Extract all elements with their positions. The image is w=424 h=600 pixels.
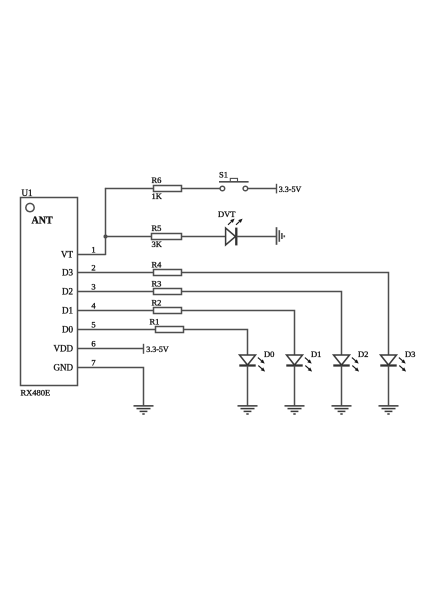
svg-text:S1: S1 [219, 170, 228, 180]
resistor R5 body [152, 234, 182, 240]
svg-text:D2: D2 [62, 287, 73, 297]
svg-text:4: 4 [91, 300, 96, 310]
svg-text:R1: R1 [150, 317, 160, 327]
resistor R2 body [154, 308, 182, 314]
wire pin2 to R4 [78, 272, 154, 274]
svg-text:R4: R4 [152, 260, 163, 270]
svg-text:VDD: VDD [54, 344, 74, 354]
LED D2 arrow 2 [352, 366, 356, 369]
svg-text:ANT: ANT [32, 216, 53, 227]
resistor R4 body [154, 270, 182, 276]
wire R1 to LED column [184, 330, 248, 356]
wire R3 to LED column [182, 292, 342, 356]
LED D3 arrow 1 [399, 358, 403, 361]
wire R5 to DVT [182, 236, 226, 238]
svg-text:5: 5 [91, 319, 95, 329]
LED D0 cathode bar [239, 364, 255, 366]
ground under D1 [285, 405, 305, 407]
svg-text:7: 7 [91, 357, 95, 367]
LED D2 cathode bar [333, 364, 349, 366]
LED D3 triangle [381, 355, 397, 365]
wire DVT to ground [236, 236, 276, 238]
wire R6 left [105, 188, 154, 190]
wire pin7 GND [78, 368, 144, 406]
ground under D2 [332, 405, 352, 407]
svg-text:1K: 1K [152, 191, 163, 201]
LED D2 triangle [334, 355, 350, 365]
ground under D3 [379, 405, 399, 407]
switch S1 right contact [243, 186, 248, 191]
LED D2 wire to ground [341, 366, 343, 406]
svg-text:2: 2 [91, 262, 95, 272]
supply terminal bar VDD [143, 344, 145, 354]
wire pin5 to R1 [78, 329, 156, 331]
LED DVT triangle [226, 228, 236, 245]
wire R5 left [106, 236, 152, 238]
svg-text:3.3-5V: 3.3-5V [146, 345, 169, 354]
resistor R3 body [154, 289, 182, 295]
LED D1 cathode bar [286, 364, 302, 366]
LED D3 wire to ground [388, 366, 390, 406]
svg-text:3.3-5V: 3.3-5V [279, 185, 302, 194]
svg-text:R5: R5 [152, 223, 162, 233]
svg-text:D1: D1 [62, 306, 73, 316]
svg-text:DVT: DVT [218, 209, 236, 219]
wire R2 to LED column [182, 311, 295, 356]
svg-text:6: 6 [91, 338, 95, 348]
LED D3 arrow 2 [399, 366, 403, 369]
svg-text:U1: U1 [22, 188, 33, 198]
resistor R1 body [156, 327, 184, 333]
LED DVT arrow 1 [228, 222, 232, 225]
LED D2 arrow 1 [352, 358, 356, 361]
svg-text:D1: D1 [311, 349, 321, 359]
LED D1 wire to ground [294, 366, 296, 406]
svg-text:RX480E: RX480E [21, 388, 51, 398]
wire pin3 to R3 [78, 291, 154, 293]
switch S1 left contact [220, 186, 225, 191]
svg-text:D0: D0 [264, 349, 274, 359]
switch S1 plunger [230, 178, 237, 181]
LED D0 arrow 1 [258, 358, 262, 361]
LED D1 triangle [287, 355, 303, 365]
LED D1 arrow 1 [305, 358, 309, 361]
LED D0 arrow 2 [258, 366, 262, 369]
ground right-facing after DVT [276, 227, 278, 245]
wire pin1 VT [78, 254, 106, 256]
LED DVT cathode bar [235, 228, 237, 246]
LED D3 cathode bar [380, 364, 396, 366]
LED DVT arrow 2 [236, 222, 240, 225]
IC antenna pin circle [26, 203, 34, 211]
wire S1 to supply [248, 188, 277, 190]
LED D0 triangle [240, 355, 256, 365]
ground under pin7 [134, 405, 154, 407]
svg-text:D0: D0 [62, 325, 73, 335]
wire R6 to S1 [182, 188, 221, 190]
switch S1 bar [219, 181, 249, 183]
svg-text:3K: 3K [152, 239, 163, 249]
wire R4 to LED column [182, 273, 389, 356]
svg-text:D2: D2 [358, 349, 368, 359]
svg-text:GND: GND [54, 363, 74, 373]
svg-text:R2: R2 [152, 298, 162, 308]
ground under D0 [238, 405, 258, 407]
junction dot VT/R5 node [104, 235, 108, 239]
LED D1 arrow 2 [305, 366, 309, 369]
svg-text:D3: D3 [62, 268, 73, 278]
svg-text:VT: VT [61, 250, 73, 260]
svg-text:R3: R3 [152, 279, 162, 289]
supply terminal bar top [276, 184, 278, 194]
svg-text:1: 1 [91, 244, 95, 254]
wire pin6 VDD [78, 348, 144, 350]
LED D0 wire to ground [247, 366, 249, 406]
wire pin4 to R2 [78, 310, 154, 312]
svg-text:D3: D3 [405, 349, 415, 359]
IC U1 body RX480E [21, 198, 78, 386]
svg-text:3: 3 [91, 281, 95, 291]
svg-text:R6: R6 [152, 175, 162, 185]
wire VT vertical to R6 row [105, 188, 107, 255]
resistor R6 body [154, 186, 182, 192]
